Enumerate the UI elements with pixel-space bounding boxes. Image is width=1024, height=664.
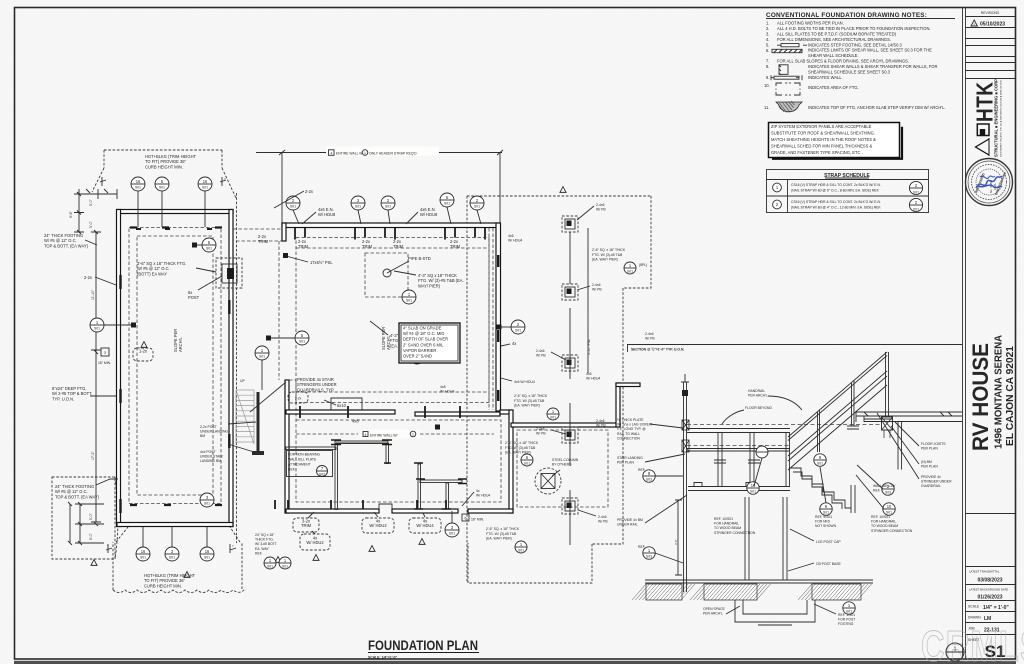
revision delta bbox=[369, 546, 375, 552]
svg-text:4x: 4x bbox=[512, 341, 516, 346]
CRMLS watermark bbox=[921, 622, 1024, 664]
project name block (rotated) bbox=[968, 334, 1016, 451]
pier column leader line bbox=[569, 232, 571, 545]
callout 3/S01 bbox=[351, 196, 365, 210]
svg-text:UNDER RAIL: UNDER RAIL bbox=[617, 523, 638, 527]
svg-text:TRIM: TRIM bbox=[301, 523, 312, 528]
house right wall upper wing bbox=[496, 223, 501, 411]
svg-text:SUBSTITUTE FOR ROOF & SHEARWAL: SUBSTITUTE FOR ROOF & SHEARWALL SHEATHIN… bbox=[771, 131, 875, 136]
svg-text:LATEST TRANSMITTAL: LATEST TRANSMITTAL bbox=[969, 570, 1000, 574]
title block info boxes bbox=[966, 514, 1016, 662]
HTK house icon bbox=[977, 124, 989, 136]
conventional foundation drawing notes block bbox=[764, 12, 955, 113]
svg-text:FTG. W/ (3)-#5 T&B: FTG. W/ (3)-#5 T&B bbox=[592, 253, 623, 257]
svg-text:ALL 4 H.D. BOLTS TO BE TIED IN: ALL 4 H.D. BOLTS TO BE TIED IN PLACE PRI… bbox=[777, 26, 931, 31]
garage cloud sides bbox=[236, 193, 238, 543]
svg-text:W/ PB: W/ PB bbox=[536, 354, 546, 358]
svg-text:S01: S01 bbox=[886, 510, 892, 514]
svg-text:W/ HDU4: W/ HDU4 bbox=[476, 494, 490, 498]
svg-text:4x6: 4x6 bbox=[508, 234, 514, 238]
svg-text:5'-0": 5'-0" bbox=[89, 512, 93, 520]
svg-text:CB POST BASE: CB POST BASE bbox=[816, 562, 842, 566]
svg-text:5.: 5. bbox=[766, 43, 769, 48]
svg-text:S01: S01 bbox=[169, 556, 175, 560]
svg-text:REF.: REF. bbox=[873, 489, 880, 493]
svg-text:LATEST BACKGROUND DATE: LATEST BACKGROUND DATE bbox=[969, 588, 1008, 592]
deck south wall y424 bbox=[511, 423, 620, 427]
svg-text:W/ PB: W/ PB bbox=[592, 288, 602, 292]
callout 1/S01 bbox=[279, 557, 291, 569]
note bubble bbox=[409, 518, 441, 533]
svg-text:SHEARWALL SCHED FOR MIN PANEL: SHEARWALL SCHED FOR MIN PANEL THICKNESS … bbox=[771, 143, 872, 148]
svg-text:S01: S01 bbox=[94, 327, 100, 331]
engineer stamp with blue signature bbox=[966, 159, 1013, 206]
svg-text:S01: S01 bbox=[202, 186, 208, 190]
svg-text:REF.: REF. bbox=[288, 468, 295, 472]
svg-text:FLOOR JOISTS: FLOOR JOISTS bbox=[921, 442, 946, 446]
svg-text:2" SAND OVER 6 MIL: 2" SAND OVER 6 MIL bbox=[403, 342, 444, 347]
svg-text:UNDER LANDING: UNDER LANDING bbox=[200, 430, 228, 434]
newel post at top bbox=[886, 352, 889, 417]
callout 2/S01 bbox=[511, 320, 525, 334]
deck pier footing bbox=[562, 284, 578, 300]
svg-text:2-4x6: 2-4x6 bbox=[536, 427, 545, 431]
svg-text:1496 MONTANA SERENA: 1496 MONTANA SERENA bbox=[994, 334, 1005, 449]
note bubble bbox=[362, 518, 394, 533]
svg-text:½" THICK PLATE: ½" THICK PLATE bbox=[617, 418, 644, 422]
svg-text:S01: S01 bbox=[259, 355, 265, 359]
svg-text:THICK FTG.: THICK FTG. bbox=[255, 538, 274, 542]
lower right room east wall bbox=[509, 410, 513, 513]
svg-text:03/08/2023: 03/08/2023 bbox=[977, 578, 1002, 584]
svg-text:STAIR LANDING: STAIR LANDING bbox=[617, 456, 643, 460]
svg-text:S01: S01 bbox=[267, 565, 273, 569]
svg-text:2-4x6: 2-4x6 bbox=[596, 203, 605, 207]
footing dashes under east wall bbox=[489, 228, 493, 410]
svg-text:RV HOUSE: RV HOUSE bbox=[968, 343, 993, 451]
svg-text:(8PL): (8PL) bbox=[639, 263, 647, 267]
svg-text:4: 4 bbox=[330, 151, 332, 155]
svg-text:PIPE B-STD: PIPE B-STD bbox=[408, 256, 431, 261]
svg-text:S01: S01 bbox=[204, 502, 210, 506]
step marker square bbox=[101, 348, 109, 356]
svg-text:SECTION @ ¾"=1'-0" TYP. U.O.N.: SECTION @ ¾"=1'-0" TYP. U.O.N. bbox=[631, 348, 684, 352]
svg-text:ATTACHMENT: ATTACHMENT bbox=[288, 463, 311, 467]
svg-text:4.: 4. bbox=[766, 37, 769, 42]
left vertical dim line bbox=[91, 232, 101, 522]
svg-text:BM: BM bbox=[200, 434, 205, 438]
svg-text:2'-6" SQ. x 18" THICK: 2'-6" SQ. x 18" THICK bbox=[514, 394, 548, 398]
garage bottom wall bbox=[117, 523, 233, 527]
dashed segments at left wall area bbox=[279, 241, 296, 420]
svg-text:5'-0": 5'-0" bbox=[89, 198, 93, 206]
svg-text:DEPTH OF SLAB OVER: DEPTH OF SLAB OVER bbox=[403, 337, 448, 342]
svg-text:GUARDRAILS, TYP.: GUARDRAILS, TYP. bbox=[297, 387, 334, 392]
svg-text:EA. WAY: EA. WAY bbox=[255, 547, 269, 551]
svg-text:S01: S01 bbox=[204, 556, 210, 560]
svg-text:S01: S01 bbox=[449, 532, 455, 536]
svg-text:STRINGER CONNECTION: STRINGER CONNECTION bbox=[871, 529, 913, 533]
svg-text:2'-6" SQ. x 18" THICK: 2'-6" SQ. x 18" THICK bbox=[486, 527, 520, 531]
svg-text:REF.: REF. bbox=[638, 468, 645, 472]
svg-text:S01: S01 bbox=[518, 549, 524, 553]
svg-text:REVISIONS: REVISIONS bbox=[981, 11, 1000, 15]
svg-text:POST: POST bbox=[188, 295, 200, 300]
stair landing deck bbox=[687, 424, 880, 426]
svg-text:ARCH'L: ARCH'L bbox=[178, 337, 183, 352]
section callout 2/S03 bbox=[882, 483, 894, 495]
interior partition walls bbox=[336, 441, 388, 444]
svg-text:3: 3 bbox=[104, 351, 106, 355]
svg-text:CRMLS: CRMLS bbox=[921, 622, 1024, 664]
foundation plan title bbox=[368, 637, 479, 660]
svg-text:PER ARCH'L: PER ARCH'L bbox=[703, 612, 723, 616]
svg-text:S01: S01 bbox=[206, 247, 212, 251]
non-bearing wall note box bbox=[287, 451, 333, 477]
svg-text:LANDING BM: LANDING BM bbox=[200, 459, 221, 463]
deck pier footing bbox=[562, 427, 578, 443]
svg-text:S01: S01 bbox=[550, 416, 556, 420]
callout 5/S01 bbox=[295, 331, 309, 345]
wall below floor bbox=[898, 422, 902, 470]
svg-text:FOR HANDRAIL: FOR HANDRAIL bbox=[714, 522, 739, 526]
note bubble bbox=[300, 534, 330, 550]
section callout 1/S03 bbox=[643, 547, 655, 559]
HTK structural engineers logo (rotated) bbox=[973, 79, 1003, 157]
svg-text:PER PLAN: PER PLAN bbox=[921, 465, 938, 469]
callout 1/S01 bbox=[402, 290, 416, 304]
svg-text:FOR HANDRAIL: FOR HANDRAIL bbox=[871, 520, 896, 524]
svg-text:REF. 10/S01: REF. 10/S01 bbox=[871, 515, 890, 519]
svg-text:FOR POST: FOR POST bbox=[838, 618, 855, 622]
svg-text:S03: S03 bbox=[885, 490, 891, 494]
svg-text:4" SLAB ON GRADE: 4" SLAB ON GRADE bbox=[403, 326, 442, 331]
svg-text:W/ HDU2: W/ HDU2 bbox=[306, 540, 324, 545]
svg-text:S01: S01 bbox=[406, 299, 412, 303]
section callout 10/S01 bbox=[883, 503, 895, 515]
lower right room dashed inset bbox=[517, 430, 608, 507]
svg-text:ENTIRE WALL W/: ENTIRE WALL W/ bbox=[370, 433, 397, 437]
svg-text:STRUCTURAL ■ ENGINEERING ■ COR: STRUCTURAL ■ ENGINEERING ■ CORP bbox=[994, 79, 999, 157]
callout 16/S01 bbox=[136, 547, 150, 561]
svg-text:ALL FOOTING WIDTHS PER PLAN.: ALL FOOTING WIDTHS PER PLAN. bbox=[777, 21, 844, 26]
top dimension line bbox=[256, 150, 503, 225]
top-left dim lines bbox=[74, 189, 117, 232]
svg-text:W/ PB: W/ PB bbox=[598, 520, 608, 524]
svg-text:2-4x6: 2-4x6 bbox=[645, 332, 654, 336]
dashes connecting garage to house bbox=[233, 229, 282, 241]
svg-text:ENTIRE WALL W/: ENTIRE WALL W/ bbox=[336, 152, 363, 156]
strap schedule table bbox=[767, 170, 929, 213]
svg-text:x 4" LONG TYP. @: x 4" LONG TYP. @ bbox=[617, 427, 646, 431]
callout 16/S01 bbox=[200, 547, 214, 561]
svg-text:MATCH SHEATHING HEIGHTS IN THE: MATCH SHEATHING HEIGHTS IN THE ROOF NOTE… bbox=[771, 137, 876, 142]
zip system note box bbox=[769, 123, 903, 159]
svg-text:PER ARCH'L: PER ARCH'L bbox=[748, 394, 768, 398]
section callout 9/S01 bbox=[814, 454, 826, 466]
svg-text:S03: S03 bbox=[646, 554, 652, 558]
svg-text:1/4" = 1'-0": 1/4" = 1'-0" bbox=[983, 605, 1009, 611]
svg-text:6x10: 6x10 bbox=[337, 403, 347, 408]
svg-text:REF. 9/S01: REF. 9/S01 bbox=[815, 515, 832, 519]
callout 2/S01 bbox=[286, 196, 300, 210]
garage pier w/ 6x post bbox=[216, 258, 242, 288]
svg-text:10: 10 bbox=[751, 483, 756, 488]
svg-text:STRINGER UNDER: STRINGER UNDER bbox=[921, 480, 952, 484]
svg-text:W/ PB: W/ PB bbox=[596, 424, 606, 428]
svg-text:STEEL COLUMN: STEEL COLUMN bbox=[552, 458, 579, 462]
svg-text:FOR NFD: FOR NFD bbox=[815, 520, 831, 524]
south wall bbox=[286, 509, 379, 513]
svg-text:SHEARWALL SCHEDULE SEE SHEET S: SHEARWALL SCHEDULE SEE SHEET S0.3 bbox=[808, 69, 891, 74]
garage interior footing dashed bbox=[129, 228, 221, 504]
svg-text:STRINGER CONNECTION: STRINGER CONNECTION bbox=[714, 531, 756, 535]
svg-text:W/ HDU4: W/ HDU4 bbox=[586, 377, 600, 381]
garage bottom cloud band bbox=[113, 527, 245, 593]
svg-text:2.: 2. bbox=[766, 26, 769, 31]
beam under posts bbox=[688, 487, 790, 491]
footing hatches bbox=[632, 584, 695, 600]
svg-text:18" MIN.: 18" MIN. bbox=[471, 518, 484, 522]
svg-text:CURB HEIGHT MIN.: CURB HEIGHT MIN. bbox=[144, 583, 182, 588]
revision table rules bbox=[966, 27, 1016, 29]
mid horizontal wall bbox=[286, 410, 395, 414]
svg-text:4x8: 4x8 bbox=[352, 419, 359, 424]
deck pier footing bbox=[562, 216, 578, 232]
svg-text:(EA. WAY/ PIER): (EA. WAY/ PIER) bbox=[486, 537, 512, 541]
lower stair posts to footing bbox=[783, 497, 787, 580]
svg-text:FOUNDATION PLAN: FOUNDATION PLAN bbox=[368, 637, 478, 653]
svg-text:FOR ALL DIMENSIONS, SEE ARCHIT: FOR ALL DIMENSIONS, SEE ARCHITECTURAL DR… bbox=[777, 37, 891, 42]
revision delta bbox=[141, 342, 147, 348]
svg-text:W/ HDU4: W/ HDU4 bbox=[508, 239, 522, 243]
garage wall strap ticks bbox=[130, 228, 222, 506]
stringer diagonals bbox=[788, 371, 887, 470]
svg-text:S03: S03 bbox=[646, 477, 652, 481]
callout 5/S01 bbox=[155, 177, 169, 191]
partition end flanges bbox=[331, 440, 467, 509]
svg-text:4x: 4x bbox=[476, 489, 480, 493]
svg-text:4x4 POST: 4x4 POST bbox=[200, 450, 216, 454]
left footing note cloud bbox=[52, 477, 118, 559]
section detail number bubble bbox=[946, 643, 964, 661]
svg-text:(EA. WAY/ PIER): (EA. WAY/ PIER) bbox=[514, 404, 540, 408]
svg-text:EL CAJON CA 92021: EL CAJON CA 92021 bbox=[1005, 346, 1016, 446]
svg-text:HANDRAIL: HANDRAIL bbox=[748, 389, 765, 393]
callout 5/S01 bbox=[440, 193, 454, 207]
svg-text:2'-6" SQ. x 18" THICK: 2'-6" SQ. x 18" THICK bbox=[592, 248, 626, 252]
svg-text:PER PLAN: PER PLAN bbox=[921, 447, 938, 451]
svg-text:16: 16 bbox=[136, 179, 141, 184]
garage left wall bbox=[117, 210, 121, 527]
svg-text:3'-6": 3'-6" bbox=[674, 539, 678, 545]
svg-text:1: 1 bbox=[364, 151, 366, 155]
svg-text:ONLY HEADER STRAP REQ'D: ONLY HEADER STRAP REQ'D bbox=[369, 152, 417, 156]
svg-text:(NAIL STRAP W/ 8d @ 6" O.C., 8: (NAIL STRAP W/ 8d @ 6" O.C., 8-8d MIN. E… bbox=[791, 189, 879, 193]
svg-text:2-2x: 2-2x bbox=[84, 275, 92, 280]
svg-text:TO WOOD BEAM: TO WOOD BEAM bbox=[714, 526, 741, 530]
svg-text:8.: 8. bbox=[766, 64, 769, 69]
callout 16/S01 bbox=[198, 177, 212, 191]
jog to lower-right room bbox=[500, 410, 511, 414]
svg-text:9474 KEARNY VILLA RD. STE 215: 9474 KEARNY VILLA RD. STE 215 ■ SAN DIEG… bbox=[1000, 79, 1003, 157]
callout 1/S01 bbox=[547, 408, 559, 420]
entire wall mid note bbox=[360, 430, 420, 439]
svg-text:RAIL TO WALL: RAIL TO WALL bbox=[617, 432, 640, 436]
svg-text:TO WOOD BEAM: TO WOOD BEAM bbox=[871, 524, 898, 528]
svg-text:9.: 9. bbox=[766, 75, 769, 80]
section border top bbox=[627, 344, 962, 346]
revision delta bbox=[419, 539, 425, 545]
svg-text:S01: S01 bbox=[750, 489, 756, 493]
svg-text:S01: S01 bbox=[355, 205, 361, 209]
svg-text:9'-6": 9'-6" bbox=[69, 210, 73, 218]
svg-text:5'-0": 5'-0" bbox=[89, 220, 93, 228]
baluster mid bbox=[852, 381, 855, 426]
header strap note box bbox=[326, 147, 439, 156]
svg-text:ARCH'L: ARCH'L bbox=[386, 335, 391, 350]
svg-text:S02: S02 bbox=[319, 473, 325, 477]
svg-text:S01: S01 bbox=[290, 205, 296, 209]
svg-text:S01: S01 bbox=[627, 270, 633, 274]
revision delta bbox=[91, 560, 97, 566]
svg-text:S01: S01 bbox=[524, 462, 530, 466]
svg-text:FTG. W/ (3)-#5 T&B: FTG. W/ (3)-#5 T&B bbox=[514, 399, 545, 403]
small tick dims at cloud edges bbox=[106, 544, 236, 553]
svg-text:S01: S01 bbox=[140, 556, 146, 560]
svg-text:7.: 7. bbox=[766, 58, 769, 63]
svg-text:S01: S01 bbox=[474, 205, 480, 209]
svg-text:TYP. U.O.N.: TYP. U.O.N. bbox=[52, 396, 74, 401]
svg-text:2-4x6: 2-4x6 bbox=[536, 349, 545, 353]
svg-text:BY OTHERS: BY OTHERS bbox=[552, 463, 572, 467]
svg-text:10: 10 bbox=[887, 504, 892, 509]
pipe bollard dashed rect bbox=[365, 253, 408, 297]
revision delta bbox=[184, 572, 190, 578]
grade line bbox=[645, 579, 873, 581]
svg-text:W/ 3-#5 BOTT.: W/ 3-#5 BOTT. bbox=[255, 542, 277, 546]
svg-text:3.: 3. bbox=[766, 32, 769, 37]
svg-text:1: 1 bbox=[954, 647, 957, 653]
svg-text:1.: 1. bbox=[766, 21, 769, 26]
svg-text:PER PLAN: PER PLAN bbox=[617, 461, 634, 465]
svg-text:FLOOR BEYOND: FLOOR BEYOND bbox=[745, 406, 772, 410]
stair treads bbox=[236, 390, 254, 444]
svg-text:(EA. WAY/ PIER): (EA. WAY/ PIER) bbox=[592, 258, 618, 262]
svg-text:PROVIDE 4x BM: PROVIDE 4x BM bbox=[617, 518, 643, 522]
callout 1/S01 bbox=[515, 541, 527, 553]
svg-text:S01: S01 bbox=[299, 340, 305, 344]
svg-text:2-2x POST: 2-2x POST bbox=[200, 425, 217, 429]
svg-text:VAPOR BARRIER: VAPOR BARRIER bbox=[403, 348, 436, 353]
interior dashed footing outline lower bbox=[296, 420, 501, 502]
garage revision cloud top band bbox=[92, 150, 236, 198]
svg-text:ALL SILL PLATES TO BE P.T.D.F.: ALL SILL PLATES TO BE P.T.D.F. (SODIUM B… bbox=[777, 32, 897, 37]
svg-text:W/ HDU8: W/ HDU8 bbox=[318, 212, 336, 217]
section callout 1/S01 bbox=[843, 602, 855, 614]
svg-text:01/26/2023: 01/26/2023 bbox=[977, 595, 1002, 601]
callout 3/S01 bbox=[165, 547, 179, 561]
svg-text:GUARDRAIL: GUARDRAIL bbox=[921, 484, 941, 488]
svg-text:FOR ALL SLAB SLOPES & FLOOR DR: FOR ALL SLAB SLOPES & FLOOR DRAINS, SEE … bbox=[777, 58, 909, 63]
deck east wall x617 bbox=[616, 383, 620, 427]
svg-text:4x6: 4x6 bbox=[586, 372, 592, 376]
svg-text:W/ #4 @ 18" O.C. MID: W/ #4 @ 18" O.C. MID bbox=[403, 331, 444, 336]
svg-text:PROVIDE 4x: PROVIDE 4x bbox=[921, 475, 941, 479]
svg-text:WALL SILL PLATE: WALL SILL PLATE bbox=[288, 458, 317, 462]
svg-text:REF.: REF. bbox=[255, 551, 262, 555]
callout 1/S01 bbox=[624, 262, 636, 274]
callout 2/S01 bbox=[470, 196, 484, 210]
open space under middle bbox=[735, 600, 815, 622]
svg-text:SCALE: SCALE bbox=[968, 605, 980, 609]
bottom-left dim lines bbox=[70, 504, 104, 543]
svg-text:6: 6 bbox=[465, 517, 467, 521]
svg-text:CS16 (V) STRAP HDR & SILL TO C: CS16 (V) STRAP HDR & SILL TO CONT. 2x BL… bbox=[791, 183, 881, 187]
svg-text:4x8: 4x8 bbox=[440, 385, 446, 389]
stringer leader bbox=[250, 382, 286, 412]
svg-text:(N) BM: (N) BM bbox=[921, 460, 932, 464]
top wall strap ticks bbox=[295, 228, 485, 240]
callout 1/S01 bbox=[264, 557, 276, 569]
garage top wall bbox=[117, 210, 233, 214]
3-2x bubble near stair bbox=[288, 392, 308, 403]
svg-text:05/10/2023: 05/10/2023 bbox=[980, 22, 1005, 28]
svg-text:W/ HDU2: W/ HDU2 bbox=[369, 523, 387, 528]
posts under landing bbox=[718, 433, 790, 487]
callout 1/S01 bbox=[90, 318, 104, 332]
svg-text:FTG. W/ (3)-#5 T&B: FTG. W/ (3)-#5 T&B bbox=[505, 446, 536, 450]
step base vertical bbox=[851, 485, 855, 513]
svg-text:S01: S01 bbox=[515, 329, 521, 333]
svg-text:TOP & BOTT. (EA WAY): TOP & BOTT. (EA WAY) bbox=[44, 243, 89, 248]
svg-text:W/ ⅝"⌀ x LAG SCREW: W/ ⅝"⌀ x LAG SCREW bbox=[617, 423, 653, 427]
svg-text:INDICATES LIMITS OF SHEAR WALL: INDICATES LIMITS OF SHEAR WALL, SEE SHEE… bbox=[808, 48, 932, 53]
deck pier footing bbox=[562, 498, 578, 514]
steps zigzag bbox=[790, 468, 851, 508]
south wall strap ticks bbox=[275, 500, 446, 509]
svg-text:W/ HDU8: W/ HDU8 bbox=[420, 212, 438, 217]
svg-text:16: 16 bbox=[205, 549, 210, 554]
callout 6/S01 bbox=[521, 454, 533, 466]
svg-text:S01: S01 bbox=[135, 186, 141, 190]
svg-text:(BOTT) EA WAY: (BOTT) EA WAY bbox=[137, 271, 167, 276]
svg-text:SHEAR WALL SCHEDULE.: SHEAR WALL SCHEDULE. bbox=[808, 53, 859, 58]
svg-text:4: 4 bbox=[365, 433, 367, 437]
svg-text:2-4x6: 2-4x6 bbox=[596, 419, 605, 423]
note bubble bbox=[133, 348, 153, 361]
svg-text:W/ PB: W/ PB bbox=[536, 432, 546, 436]
svg-text:REF. 10/S01: REF. 10/S01 bbox=[714, 517, 733, 521]
deck north short wall bbox=[616, 383, 640, 387]
svg-text:17x6½" PSL: 17x6½" PSL bbox=[310, 260, 333, 265]
svg-text:CS16 (V) STRAP HDR & SILL TO C: CS16 (V) STRAP HDR & SILL TO CONT. 2x BL… bbox=[791, 200, 881, 204]
interior dashed footing outline upper bbox=[296, 238, 489, 403]
svg-text:S01: S01 bbox=[385, 205, 391, 209]
strap row 2 bbox=[773, 200, 782, 209]
svg-text:CURB HEIGHT MIN.: CURB HEIGHT MIN. bbox=[145, 164, 183, 169]
svg-text:NOT SHOWN: NOT SHOWN bbox=[815, 524, 837, 528]
section callout 10/S01 bbox=[747, 482, 759, 494]
svg-text:24" SQ x 18": 24" SQ x 18" bbox=[255, 533, 275, 537]
svg-text:2-4x6: 2-4x6 bbox=[592, 283, 601, 287]
svg-text:17'-2": 17'-2" bbox=[91, 451, 95, 460]
svg-text:UNDER STAIR: UNDER STAIR bbox=[200, 455, 223, 459]
svg-text:1-2x: 1-2x bbox=[139, 349, 147, 354]
main deck revision cloud bbox=[467, 196, 651, 583]
baluster low bbox=[818, 410, 820, 452]
upper right floor bbox=[856, 412, 962, 422]
